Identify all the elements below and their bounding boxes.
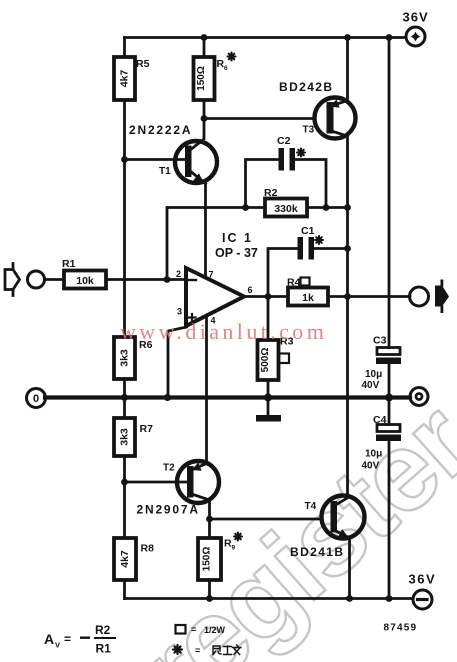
node C3/C4 on 0 rail <box>385 394 393 402</box>
svg-text:10k: 10k <box>76 275 94 287</box>
terminal input <box>28 271 45 288</box>
svg-text:36V: 36V <box>403 10 429 25</box>
resistor R7 3k3 <box>114 418 153 456</box>
resistor R2 330k <box>264 187 307 217</box>
capacitor C1 <box>298 225 324 260</box>
wire T3 base <box>204 117 315 120</box>
capacitor C2 <box>277 135 305 171</box>
svg-text:IC 1: IC 1 <box>222 231 253 245</box>
wire R1 to op-amp pin2 <box>106 278 186 281</box>
op-amp IC1 OP-37 <box>176 231 258 326</box>
svg-text:R1: R1 <box>62 258 76 270</box>
resistor R6* 150R <box>194 53 236 101</box>
wire C3 rail from +36V <box>388 38 391 348</box>
svg-text:C1: C1 <box>301 225 315 237</box>
watermark red dianlut <box>120 319 327 344</box>
svg-text:T2: T2 <box>163 463 175 474</box>
svg-text:C2: C2 <box>277 135 291 147</box>
svg-text:=: = <box>64 632 71 646</box>
wire R6* 150 top stub <box>203 38 206 58</box>
svg-text:0: 0 <box>33 393 39 405</box>
wire T2 base <box>125 481 188 484</box>
wire 0 rail <box>45 395 410 399</box>
svg-text:36V: 36V <box>409 572 437 587</box>
svg-text:R2: R2 <box>264 187 278 199</box>
svg-text:A: A <box>44 631 54 647</box>
wire pin3 to 0 rail <box>168 327 187 398</box>
wire pin6 output <box>244 295 288 298</box>
wire C4 bottom to -36V rail <box>388 441 391 599</box>
svg-text:V: V <box>55 641 60 650</box>
svg-text:3k3: 3k3 <box>119 349 131 367</box>
wire 0 rail to C4 <box>388 398 391 425</box>
wire T3 emitter to +36V <box>346 38 349 101</box>
wire T4 emitter to -36V rail <box>348 538 351 599</box>
svg-text:www.dianlut.com: www.dianlut.com <box>120 319 327 344</box>
svg-text:7: 7 <box>209 270 214 280</box>
svg-text:10μ: 10μ <box>365 369 382 380</box>
transistor T4 BD241B <box>290 496 365 560</box>
node R2 on output rail <box>344 204 351 211</box>
node T4 emitter on -36V rail <box>346 595 353 602</box>
svg-text:87459: 87459 <box>384 623 418 634</box>
node T3 emitter on +36V rail <box>344 34 351 41</box>
svg-text:R5: R5 <box>136 58 150 70</box>
resistor R6 3k3 <box>114 337 153 379</box>
wire R3 to 0 rail <box>267 380 270 398</box>
wire left column R5 to R6 <box>123 100 126 337</box>
svg-text:2: 2 <box>176 269 181 279</box>
node R4 right on output rail <box>344 293 351 300</box>
wire R4 to output terminal <box>328 295 410 298</box>
legend square = 1/2W <box>176 625 226 636</box>
svg-text:150Ω: 150Ω <box>202 547 213 572</box>
wire R8 bottom stub <box>123 580 126 599</box>
node C3 rail on +36V rail <box>386 34 393 41</box>
node T2 collector / R9 / T4 base <box>206 516 213 523</box>
svg-text:6: 6 <box>248 285 253 295</box>
terminal +36V <box>403 10 429 47</box>
node T2 base <box>121 479 128 486</box>
transistor T2 2N2907A <box>137 461 220 517</box>
svg-text:T1: T1 <box>159 166 171 177</box>
svg-text:6: 6 <box>224 65 228 72</box>
wire R9 bottom stub <box>208 580 211 599</box>
capacitor C3 <box>362 335 402 392</box>
wire T2 collector down <box>208 500 211 519</box>
svg-text:BD242B: BD242B <box>279 80 333 94</box>
svg-text:4k7: 4k7 <box>119 550 131 568</box>
svg-text:330k: 330k <box>274 203 298 215</box>
node R6 150R top on +36V rail <box>201 34 208 41</box>
wire pin2 riser to R2 <box>167 208 265 280</box>
svg-text:R7: R7 <box>140 423 154 435</box>
capacitor C4 <box>362 414 402 472</box>
node T3 base / T1 collector <box>201 115 208 122</box>
svg-text:C3: C3 <box>373 335 387 347</box>
node R3/ground on 0 rail <box>264 394 272 402</box>
svg-text:T3: T3 <box>303 125 315 136</box>
input arrow <box>5 264 20 296</box>
resistor R3 500R <box>258 297 294 381</box>
wire input to R1 <box>45 278 65 281</box>
svg-text:2N2222A: 2N2222A <box>129 123 192 137</box>
terminal -36V <box>409 572 437 610</box>
resistor R1 10k <box>62 258 106 289</box>
node C2 left / R2 left <box>242 204 249 211</box>
terminal 0 right <box>410 388 428 406</box>
wire T1 collector <box>190 119 205 151</box>
svg-text:1k: 1k <box>302 292 314 304</box>
wire R9 top stub <box>208 519 211 538</box>
transistor T3 BD242B <box>279 80 356 139</box>
formula Av = -R2/R1 <box>44 623 116 656</box>
svg-text:4k7: 4k7 <box>119 70 131 88</box>
wire C3 bottom to 0 rail <box>388 364 391 398</box>
wire C1 left leg <box>268 249 298 297</box>
resistor R8 4k7 <box>114 538 154 580</box>
node pin6 / C1 left / R3 top <box>265 293 272 300</box>
svg-text:=: = <box>195 646 200 656</box>
wire C2 right leg <box>295 160 326 208</box>
wire C2 left leg <box>246 160 279 208</box>
svg-text:3: 3 <box>177 307 182 317</box>
wire R6 bottom stub <box>123 379 126 398</box>
svg-text:2N2907A: 2N2907A <box>137 503 200 517</box>
wire T3/T4 collector rail <box>346 136 349 498</box>
terminal 0 left <box>27 389 46 408</box>
svg-text:1/2W: 1/2W <box>204 625 226 635</box>
resistor R9* 150R <box>198 533 242 581</box>
wire R2 right to rail <box>307 206 348 209</box>
svg-text:9: 9 <box>232 545 236 552</box>
wire R7 top stub <box>123 398 126 419</box>
node R9 on -36V rail <box>206 595 213 602</box>
node R6/R7 on 0 rail <box>121 394 128 401</box>
svg-text:150Ω: 150Ω <box>196 66 207 91</box>
node C1 right on output rail <box>344 245 351 252</box>
wire R5 top stub <box>123 38 126 58</box>
svg-text:R4: R4 <box>287 277 301 289</box>
svg-text:R8: R8 <box>141 543 155 555</box>
transistor T1 2N2222A <box>129 123 217 184</box>
svg-text:OP - 37: OP - 37 <box>215 246 258 260</box>
watermark gray register <box>115 379 457 662</box>
svg-text:R2: R2 <box>95 623 111 637</box>
node pin2 input <box>164 276 171 283</box>
svg-text:3k3: 3k3 <box>119 428 131 446</box>
svg-text:C4: C4 <box>373 414 387 426</box>
svg-text:T4: T4 <box>305 501 317 512</box>
wire R7 to R8 through T2 base node <box>123 456 126 538</box>
wire -36V bottom rail <box>125 597 414 600</box>
ground <box>256 398 281 422</box>
legend star = see text <box>173 645 241 656</box>
svg-text:R1: R1 <box>96 642 112 656</box>
node C4 rail on -36V rail <box>386 595 393 602</box>
wire pin4 to T2 emitter <box>205 316 208 464</box>
svg-text:10μ: 10μ <box>365 449 382 460</box>
output arrow <box>435 280 449 314</box>
svg-text:500Ω: 500Ω <box>260 348 271 373</box>
node pin3 on 0 rail <box>164 394 171 401</box>
wire T1 base <box>125 158 186 161</box>
wire C1 right leg <box>314 247 348 250</box>
svg-text:40V: 40V <box>362 380 380 391</box>
wire R6* bottom stub <box>203 100 206 119</box>
resistor R5 <box>114 57 150 100</box>
terminal output <box>410 287 429 306</box>
wire T1 emitter to pin7 <box>204 184 207 278</box>
svg-text:BD241B: BD241B <box>290 545 344 559</box>
wire T2 collector to T4 base <box>210 518 323 521</box>
resistor R4 1k <box>287 277 328 306</box>
svg-text:=: = <box>191 625 196 635</box>
svg-text:40V: 40V <box>362 461 380 472</box>
node C2 right / R2 right <box>323 204 330 211</box>
node T1 base <box>121 156 128 163</box>
wire +36V top rail <box>125 36 407 39</box>
